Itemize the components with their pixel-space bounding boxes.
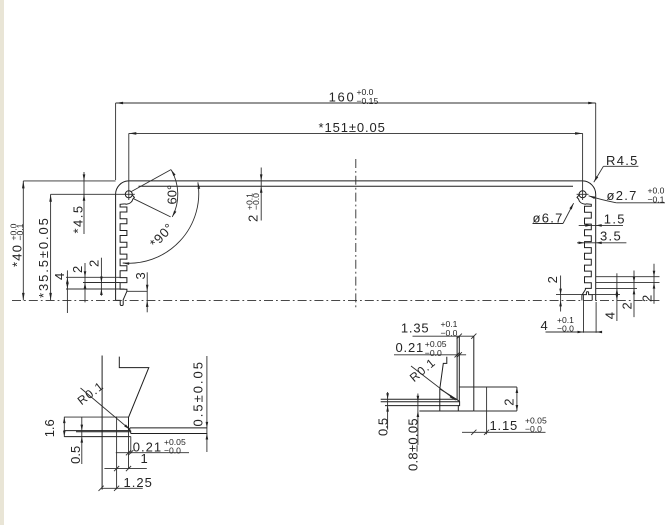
svg-text:2: 2 <box>246 215 261 222</box>
svg-text:−0.0: −0.0 <box>164 446 181 456</box>
svg-text:*151±0.05: *151±0.05 <box>319 120 386 135</box>
svg-text:2: 2 <box>501 398 516 405</box>
svg-text:1.5: 1.5 <box>604 211 626 226</box>
svg-text:R0.1: R0.1 <box>407 355 438 385</box>
svg-text:60°: 60° <box>164 185 179 205</box>
svg-text:1.6: 1.6 <box>42 419 57 437</box>
svg-text:4: 4 <box>602 312 617 319</box>
svg-text:−0.1: −0.1 <box>15 223 25 240</box>
svg-text:−0.0: −0.0 <box>557 324 574 334</box>
svg-text:4: 4 <box>541 318 548 333</box>
svg-text:2: 2 <box>70 266 85 273</box>
svg-text:0.5±0.05: 0.5±0.05 <box>190 360 205 427</box>
svg-text:1.25: 1.25 <box>124 475 153 490</box>
svg-text:1.15: 1.15 <box>490 418 519 433</box>
svg-text:4: 4 <box>52 273 67 280</box>
svg-text:2: 2 <box>619 302 634 309</box>
svg-text:1.35: 1.35 <box>401 320 430 335</box>
svg-text:2: 2 <box>86 260 101 267</box>
svg-text:3: 3 <box>133 272 148 279</box>
svg-text:R4.5: R4.5 <box>606 153 639 168</box>
svg-text:−0.0: −0.0 <box>251 193 261 210</box>
svg-text:0.8±0.05: 0.8±0.05 <box>406 418 421 471</box>
svg-text:0.5: 0.5 <box>68 446 83 464</box>
svg-text:*35.5±0.05: *35.5±0.05 <box>36 216 51 298</box>
svg-text:*4.5: *4.5 <box>71 204 86 233</box>
svg-text:3.5: 3.5 <box>600 229 622 244</box>
svg-text:−0.0: −0.0 <box>525 424 542 434</box>
svg-text:0.5: 0.5 <box>375 418 390 436</box>
svg-text:*90°: *90° <box>147 220 177 251</box>
svg-text:2: 2 <box>639 295 654 302</box>
svg-text:160: 160 <box>329 90 356 105</box>
svg-text:−0.15: −0.15 <box>357 96 379 106</box>
svg-text:ø2.7: ø2.7 <box>607 188 638 203</box>
svg-text:*40: *40 <box>10 244 25 267</box>
svg-text:1: 1 <box>141 451 148 466</box>
svg-text:0.21: 0.21 <box>396 340 425 355</box>
svg-text:2: 2 <box>545 276 560 283</box>
